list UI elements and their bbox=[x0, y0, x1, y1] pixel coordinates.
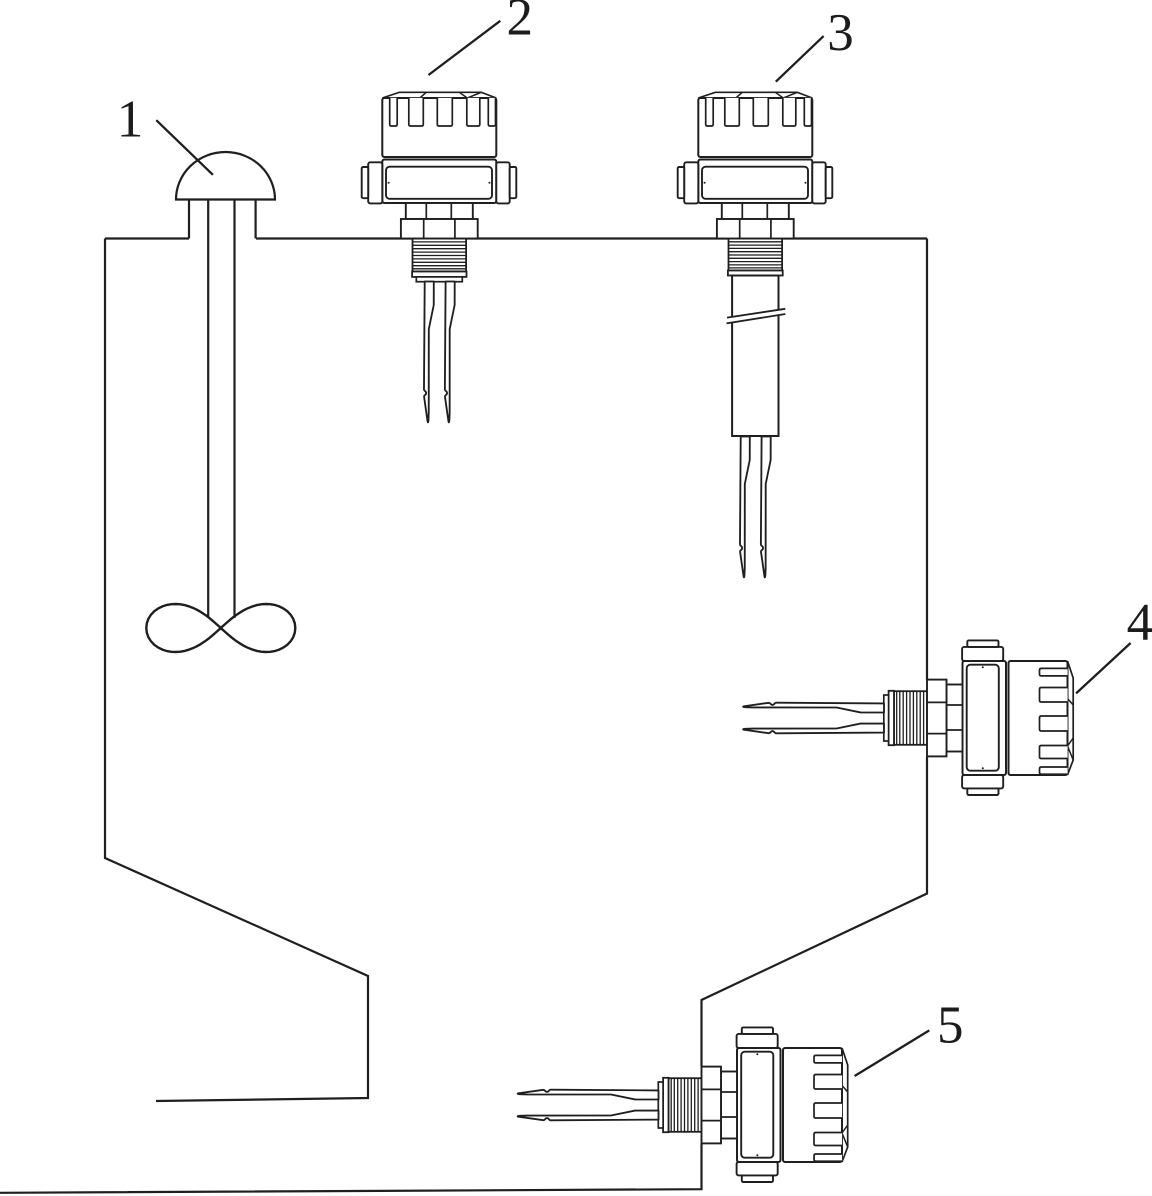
stirrer 1: motor dome bbox=[176, 152, 275, 199]
tank right wall upper segment bbox=[926, 239, 928, 680]
leader line 5 bbox=[855, 1030, 930, 1076]
leader line 2 bbox=[429, 21, 501, 75]
sensor 3 (top, extended tube fork) bbox=[678, 92, 833, 577]
svg-text:1: 1 bbox=[117, 90, 144, 148]
tank top line right of stirrer dome bbox=[256, 237, 927, 239]
sensor 4 (right wall) bbox=[743, 640, 1073, 795]
leader line 3 bbox=[776, 36, 824, 82]
stirrer shaft bbox=[208, 200, 234, 619]
stirrer impeller (figure-eight blades) bbox=[146, 604, 295, 652]
tank right wall lower segment, slanted bottom, outlet wall and bottom line bbox=[702, 757, 928, 1067]
svg-text:2: 2 bbox=[507, 0, 534, 47]
sensor 5 (lower outlet wall) bbox=[518, 1027, 848, 1182]
tank shell left wall and bottom-left discharge chute bbox=[105, 239, 368, 1102]
svg-text:3: 3 bbox=[827, 4, 854, 62]
stirrer mounting nozzle risers bbox=[189, 200, 256, 239]
sensor 2 (top, short fork) bbox=[362, 92, 517, 422]
svg-text:5: 5 bbox=[937, 997, 964, 1055]
svg-text:4: 4 bbox=[1127, 594, 1152, 652]
tank top line left of stirrer dome bbox=[105, 237, 189, 239]
pipe break mark bbox=[727, 309, 786, 324]
leader line 1 bbox=[156, 120, 213, 175]
leader line 4 bbox=[1076, 643, 1131, 693]
